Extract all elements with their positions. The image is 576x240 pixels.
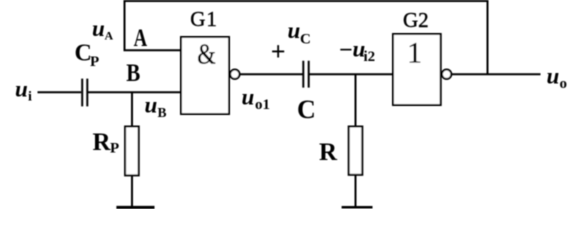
svg-text:R: R xyxy=(319,139,338,166)
capacitor C xyxy=(303,61,308,88)
svg-text:C: C xyxy=(297,95,316,124)
wire input from u_i xyxy=(38,91,82,93)
label RP xyxy=(93,129,120,157)
wire R to ground xyxy=(355,175,357,206)
svg-text:A: A xyxy=(134,23,148,51)
G1 output bubble xyxy=(230,70,239,79)
svg-text:u: u xyxy=(288,18,301,43)
gate G2 box xyxy=(393,34,441,105)
svg-text:B: B xyxy=(158,105,167,120)
label -u_i2 xyxy=(339,37,375,66)
wire C to G2 input xyxy=(309,73,393,75)
gate G1 box xyxy=(181,37,229,114)
svg-text:+: + xyxy=(271,37,286,66)
wire CP to G1 input B xyxy=(87,91,181,93)
resistor RP xyxy=(125,127,139,176)
ground (left) xyxy=(116,206,154,209)
ground (right) xyxy=(342,206,373,209)
label u_i xyxy=(15,77,32,105)
capacitor CP xyxy=(82,79,87,107)
svg-text:1: 1 xyxy=(407,36,422,69)
svg-text:&: & xyxy=(197,37,216,70)
label CP xyxy=(75,41,100,71)
svg-text:o: o xyxy=(560,76,568,92)
wire G2 output to u_o xyxy=(452,73,541,75)
label uB xyxy=(145,93,167,121)
resistor R xyxy=(349,127,363,175)
svg-text:G1: G1 xyxy=(190,7,218,31)
svg-text:i: i xyxy=(28,90,32,105)
svg-text:i2: i2 xyxy=(364,49,376,65)
svg-text:o1: o1 xyxy=(255,97,270,113)
label uA xyxy=(92,16,114,43)
label uo xyxy=(547,64,568,93)
wire RP to ground xyxy=(131,175,133,206)
svg-text:G2: G2 xyxy=(403,8,429,32)
wire node B down to RP xyxy=(131,92,133,126)
svg-text:u: u xyxy=(547,64,560,89)
svg-text:u: u xyxy=(15,77,28,102)
svg-text:P: P xyxy=(90,54,99,70)
svg-text:B: B xyxy=(126,58,140,86)
svg-text:R: R xyxy=(93,129,112,156)
wire feedback loop: A-input, up, across top, down to output node xyxy=(125,1,488,74)
svg-text:C: C xyxy=(300,32,311,48)
svg-text:P: P xyxy=(110,141,119,157)
wire G1 output to capacitor C xyxy=(240,73,303,75)
svg-text:A: A xyxy=(105,29,114,43)
label uo1 xyxy=(242,85,271,114)
svg-text:−: − xyxy=(339,38,353,64)
svg-text:u: u xyxy=(92,16,105,41)
svg-text:u: u xyxy=(242,85,255,110)
svg-text:u: u xyxy=(145,93,158,118)
label uC xyxy=(288,18,311,47)
G2 output bubble xyxy=(442,70,451,79)
wire node down to R xyxy=(355,74,357,126)
